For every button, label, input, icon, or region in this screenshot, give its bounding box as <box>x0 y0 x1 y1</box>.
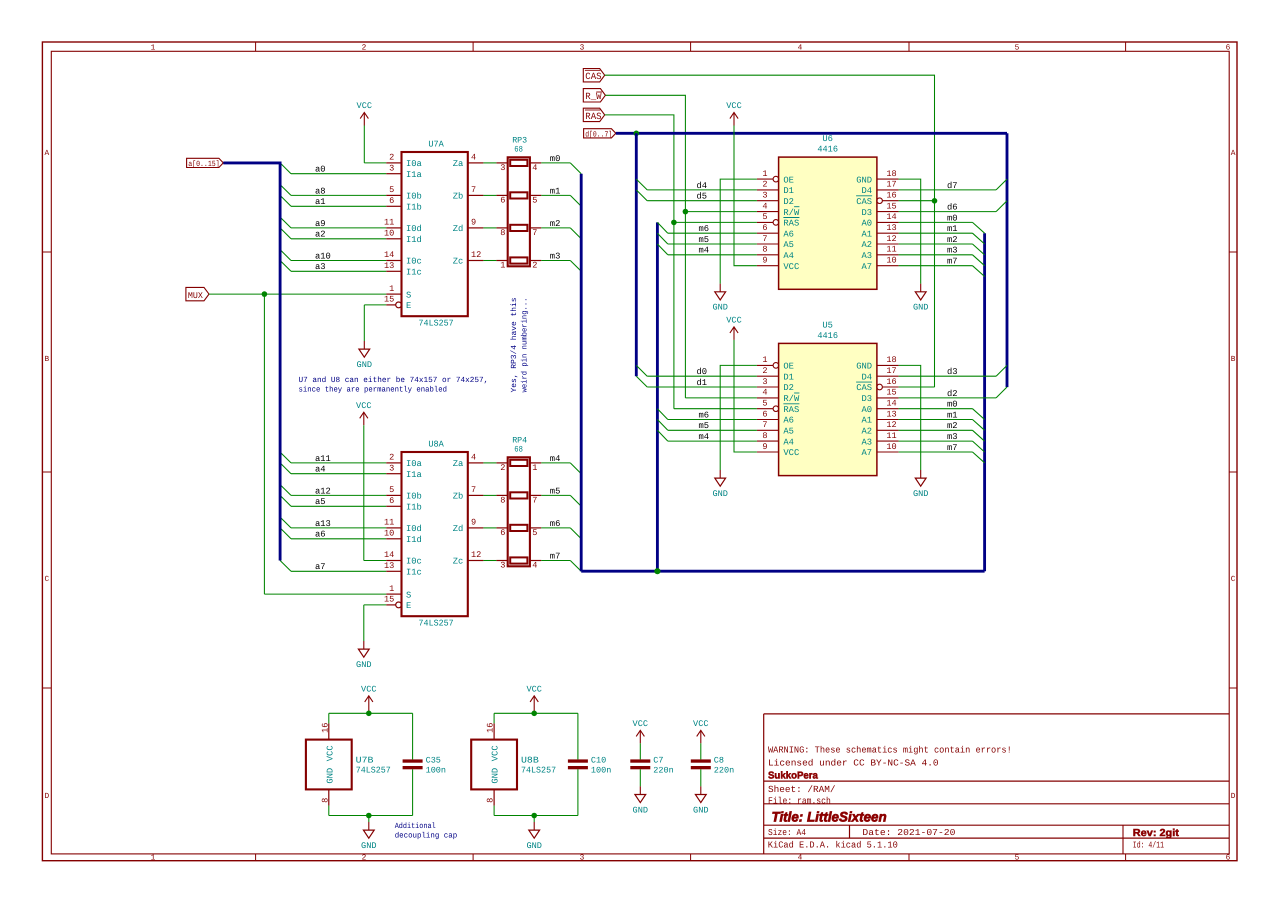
wire mux output to RP3 <box>483 194 496 196</box>
capacitor C8 220n <box>691 755 734 775</box>
bus d left vertical <box>635 133 638 376</box>
svg-text:13: 13 <box>886 223 896 233</box>
bus entry + wire a5 <box>280 495 386 507</box>
U6 pin 12 A2 <box>862 234 899 250</box>
junction MUX net <box>262 291 268 297</box>
svg-text:A1: A1 <box>862 229 873 239</box>
RP4 pin 7 (right) <box>530 495 541 505</box>
svg-text:15: 15 <box>886 201 896 211</box>
U6 pin 17 D4 <box>862 180 899 196</box>
U8A pin 1 S <box>386 584 411 601</box>
power VCC for RAM pin 9 <box>726 101 757 266</box>
svg-text:16: 16 <box>486 723 496 733</box>
RP3 pin 3 (left) <box>496 163 507 173</box>
wire MUX to U8A pin S <box>264 294 386 594</box>
capacitor C10 100n <box>568 755 611 775</box>
bus entry + wire a8 <box>280 185 386 197</box>
svg-text:A7: A7 <box>862 262 873 272</box>
svg-text:A0: A0 <box>862 219 873 229</box>
svg-text:4: 4 <box>471 453 476 463</box>
svg-text:VCC: VCC <box>633 719 648 729</box>
title block company SukkoPera <box>768 771 818 782</box>
ground for U7B rail <box>361 816 376 852</box>
title block file name <box>768 795 831 806</box>
svg-text:4416: 4416 <box>817 331 838 341</box>
svg-text:I1c: I1c <box>406 268 422 278</box>
svg-text:m6: m6 <box>550 519 561 529</box>
svg-text:m5: m5 <box>699 421 710 431</box>
wire + bus entry m2 <box>541 219 581 239</box>
svg-text:15: 15 <box>384 595 394 605</box>
note about 74x157/74x257 <box>299 376 489 395</box>
resistor RP3 element 1 <box>510 160 527 166</box>
bus entry + wire m6 <box>657 409 757 421</box>
svg-text:4: 4 <box>532 163 537 173</box>
wire + bus entry m7 <box>541 551 581 571</box>
wire + bus entry m0 (right) <box>899 213 985 233</box>
U5 pin 16 CAS <box>856 377 899 393</box>
svg-text:Licensed under CC BY-NC-SA 4.0: Licensed under CC BY-NC-SA 4.0 <box>768 758 939 769</box>
power VCC for RAM pin 9 <box>726 316 757 453</box>
wire + bus entry m1 (right) <box>899 224 985 244</box>
svg-text:VCC: VCC <box>357 101 372 111</box>
svg-text:MUX: MUX <box>188 291 204 301</box>
svg-text:A: A <box>44 149 49 158</box>
power VCC for U8A <box>356 401 386 561</box>
bus entry + wire a1 <box>280 195 386 207</box>
bus entry + wire m4 <box>657 244 757 256</box>
svg-text:GND: GND <box>913 303 928 313</box>
svg-text:d[0..7]: d[0..7] <box>585 131 612 140</box>
svg-text:1: 1 <box>151 854 156 863</box>
svg-text:A6: A6 <box>783 229 794 239</box>
U6 pin 18 GND <box>856 169 898 185</box>
wire + bus entry m1 <box>541 186 581 206</box>
svg-text:6: 6 <box>500 196 505 206</box>
svg-text:a0: a0 <box>315 165 326 175</box>
wire + bus entry m7 (right) <box>899 443 985 463</box>
svg-text:U7B: U7B <box>356 755 374 765</box>
wire R_W to pin 4 <box>685 211 757 213</box>
svg-text:m5: m5 <box>550 486 561 496</box>
svg-text:d3: d3 <box>947 367 958 377</box>
U5 pin 11 A3 <box>862 431 899 447</box>
ground for C7 <box>633 769 648 815</box>
U5 pin 14 A0 <box>862 399 899 415</box>
U6 pin 15 D3 <box>862 201 899 217</box>
ground for U7A pin 15 <box>357 305 387 370</box>
DRAM U6 4416 body <box>779 134 877 289</box>
svg-text:D1: D1 <box>783 372 794 382</box>
U6 pin 11 A3 <box>862 245 899 261</box>
svg-text:3: 3 <box>580 43 585 52</box>
svg-text:C7: C7 <box>653 755 663 765</box>
U7A pin 14 I0c <box>384 250 422 267</box>
wire R_W to pin 4 <box>685 397 757 399</box>
svg-text:5: 5 <box>1015 854 1020 863</box>
svg-text:1: 1 <box>389 284 394 294</box>
U7A pin 9 Zd <box>453 218 484 235</box>
svg-text:220n: 220n <box>714 765 734 775</box>
svg-text:18: 18 <box>886 169 896 179</box>
svg-text:m0: m0 <box>947 400 958 410</box>
svg-text:I0c: I0c <box>406 257 422 267</box>
svg-text:9: 9 <box>471 518 476 528</box>
bus entry + wire m5 <box>657 420 757 432</box>
svg-text:VCC: VCC <box>361 684 376 694</box>
ground for U8B rail <box>526 816 541 852</box>
U8A pin 11 I0d <box>384 518 422 535</box>
svg-text:8: 8 <box>486 798 496 803</box>
svg-text:A3: A3 <box>862 251 873 261</box>
svg-text:m2: m2 <box>947 235 958 245</box>
title block comment warning <box>768 744 1012 755</box>
svg-text:D1: D1 <box>783 186 794 196</box>
svg-text:m0: m0 <box>947 213 958 223</box>
svg-text:74LS257: 74LS257 <box>356 765 391 775</box>
svg-text:m7: m7 <box>947 443 958 453</box>
svg-text:14: 14 <box>886 399 896 409</box>
bus m (middle vertical) <box>656 222 659 571</box>
wire mux output to RP3 <box>483 162 496 164</box>
svg-text:GND: GND <box>856 362 872 372</box>
U7A pin 4 Za <box>453 153 484 170</box>
svg-text:U5: U5 <box>822 321 833 331</box>
U5 pin 9 VCC <box>757 442 799 458</box>
svg-text:4: 4 <box>471 153 476 163</box>
U5 pin 12 A2 <box>862 420 899 436</box>
U8A pin 10 I1d <box>384 529 422 546</box>
svg-text:16: 16 <box>886 191 896 201</box>
svg-text:7: 7 <box>762 234 767 244</box>
svg-text:VCC: VCC <box>491 745 501 761</box>
power VCC for U7A <box>357 101 387 163</box>
U6 pin 9 VCC <box>757 256 799 272</box>
svg-text:2: 2 <box>389 453 394 463</box>
power VCC for C7 <box>633 719 648 760</box>
global label CAS <box>583 69 604 83</box>
wire GND rail U8B <box>494 769 578 815</box>
RP4 pin 2 (left) <box>496 463 507 473</box>
svg-text:I1a: I1a <box>406 470 422 480</box>
svg-text:d2: d2 <box>947 389 958 399</box>
svg-text:m6: m6 <box>699 224 710 234</box>
svg-text:A3: A3 <box>862 437 873 447</box>
U6 pin 4 R/W <box>757 201 800 217</box>
svg-text:12: 12 <box>471 550 481 560</box>
wire VCC rail U8B <box>494 713 578 759</box>
junction m bus <box>654 568 660 574</box>
U7A pin 15 E (inverted) <box>384 295 411 312</box>
svg-text:8: 8 <box>500 228 505 238</box>
svg-text:a5: a5 <box>315 497 326 507</box>
bus entry + wire a13 <box>280 517 386 529</box>
svg-text:m1: m1 <box>947 410 958 420</box>
svg-text:E: E <box>406 601 411 611</box>
svg-text:GND: GND <box>712 303 727 313</box>
svg-text:VCC: VCC <box>693 719 708 729</box>
junction RAS at U6 <box>671 220 677 226</box>
svg-text:SukkoPera: SukkoPera <box>768 771 818 782</box>
svg-text:GND: GND <box>856 175 872 185</box>
wire MUX to U7A pin S <box>209 293 386 295</box>
svg-text:5: 5 <box>762 212 767 222</box>
svg-text:GND: GND <box>491 768 501 784</box>
svg-text:U8A: U8A <box>428 440 444 450</box>
U5 pin 5 RAS <box>757 399 800 415</box>
junction CAS at U6 <box>932 198 938 204</box>
svg-text:Rev: 2git: Rev: 2git <box>1133 828 1180 839</box>
wire + bus entry m3 (right) <box>899 432 985 452</box>
svg-text:A7: A7 <box>862 448 873 458</box>
U5 pin 13 A1 <box>862 409 899 425</box>
svg-text:220n: 220n <box>653 765 673 775</box>
resistor RP3 element 2 <box>510 192 527 198</box>
svg-text:B: B <box>1231 355 1236 364</box>
RP3 pin 6 (left) <box>496 195 507 205</box>
svg-text:VCC: VCC <box>726 316 741 326</box>
bus entry + wire a4 <box>280 463 386 475</box>
svg-text:100n: 100n <box>426 765 446 775</box>
svg-text:I0d: I0d <box>406 224 422 234</box>
svg-text:9: 9 <box>762 442 767 452</box>
bus entry + wire a3 <box>280 261 386 273</box>
svg-text:m3: m3 <box>550 251 561 261</box>
svg-text:D3: D3 <box>862 394 873 404</box>
title block comment license <box>768 758 939 769</box>
svg-text:1: 1 <box>762 355 767 365</box>
svg-text:since they are permanently ena: since they are permanently enabled <box>299 386 448 395</box>
svg-text:74LS257: 74LS257 <box>521 765 556 775</box>
svg-text:weird pin numbering...: weird pin numbering... <box>521 298 530 393</box>
svg-text:OE: OE <box>783 362 794 372</box>
U7B pin 16 VCC <box>320 723 335 762</box>
U5 pin 7 A5 <box>757 420 794 436</box>
svg-text:5: 5 <box>389 185 394 195</box>
svg-text:RAS: RAS <box>783 405 799 415</box>
svg-text:S: S <box>406 590 411 600</box>
svg-text:C10: C10 <box>591 755 606 765</box>
wire CAS to pin 16 <box>899 386 935 388</box>
svg-text:I0c: I0c <box>406 557 422 567</box>
svg-text:a4: a4 <box>315 465 326 475</box>
svg-text:U7A: U7A <box>428 140 444 150</box>
svg-text:CAS: CAS <box>856 383 872 393</box>
svg-text:6: 6 <box>1226 43 1231 52</box>
U6 pin 2 D1 <box>757 180 794 196</box>
bus entry + wire a10 <box>280 250 386 262</box>
title block kicad version <box>768 839 898 850</box>
svg-text:a7: a7 <box>315 562 326 572</box>
wire CAS to pin 16 <box>899 200 935 202</box>
wire + bus entry d6 from D3 <box>899 201 1007 213</box>
svg-text:4: 4 <box>762 201 767 211</box>
svg-text:CAS: CAS <box>585 71 601 82</box>
svg-text:13: 13 <box>384 261 394 271</box>
svg-text:3: 3 <box>580 854 585 863</box>
svg-text:Zc: Zc <box>453 557 464 567</box>
U7A pin 11 I0d <box>384 218 422 235</box>
U6 pin 14 A0 <box>862 212 899 228</box>
svg-text:14: 14 <box>384 250 394 260</box>
svg-text:m1: m1 <box>550 186 561 196</box>
svg-text:C8: C8 <box>714 755 724 765</box>
svg-text:17: 17 <box>886 180 896 190</box>
bus entry + wire m6 <box>657 222 757 234</box>
svg-text:GND: GND <box>913 489 928 499</box>
svg-text:A2: A2 <box>862 240 873 250</box>
note additional decoupling cap <box>395 822 458 840</box>
svg-text:8: 8 <box>320 798 330 803</box>
junction U8B GND rail <box>531 813 537 819</box>
title block sheet id <box>1133 840 1164 850</box>
wire GND pin 18 to ground <box>899 179 929 313</box>
U8A pin 2 I0a <box>386 453 422 470</box>
svg-text:6: 6 <box>389 196 394 206</box>
U8A pin 5 I0b <box>386 485 422 502</box>
title block revision <box>1133 828 1180 839</box>
svg-text:m3: m3 <box>947 246 958 256</box>
U5 pin 4 R/W <box>757 388 800 404</box>
wire + bus entry m2 (right) <box>899 235 985 255</box>
junction d bus <box>634 131 640 137</box>
svg-text:7: 7 <box>532 228 537 238</box>
svg-text:16: 16 <box>886 377 896 387</box>
svg-text:6: 6 <box>389 496 394 506</box>
svg-text:VCC: VCC <box>783 262 799 272</box>
svg-text:10: 10 <box>384 229 394 239</box>
svg-text:Date: 2021-07-20: Date: 2021-07-20 <box>862 828 955 838</box>
U8A pin 7 Zb <box>453 485 484 502</box>
svg-text:4: 4 <box>532 561 537 571</box>
svg-text:I1b: I1b <box>406 503 422 513</box>
U5 pin 3 D2 <box>757 377 794 393</box>
svg-text:m0: m0 <box>550 154 561 164</box>
U7A pin 1 S <box>386 284 411 301</box>
svg-text:m7: m7 <box>550 551 561 561</box>
svg-text:File: ram.sch: File: ram.sch <box>768 795 831 806</box>
wire mux output to RP4 <box>483 462 496 464</box>
svg-text:A5: A5 <box>783 240 794 250</box>
svg-text:68: 68 <box>514 444 523 454</box>
svg-text:a13: a13 <box>315 519 331 529</box>
svg-text:D2: D2 <box>783 197 794 207</box>
power VCC for C8 <box>693 719 708 760</box>
hierarchical label d[0..7] <box>584 129 616 140</box>
svg-text:2: 2 <box>362 43 367 52</box>
U6 pin 6 A6 <box>757 223 794 239</box>
RP3 pin 1 (left) <box>496 261 507 271</box>
svg-text:6: 6 <box>762 409 767 419</box>
svg-text:A: A <box>1231 149 1236 158</box>
svg-text:a[0..15]: a[0..15] <box>188 160 220 169</box>
svg-text:m4: m4 <box>699 432 710 442</box>
svg-text:E: E <box>406 301 411 311</box>
resistor pack RP3 68 body <box>508 135 530 266</box>
bus entry + wire m5 <box>657 233 757 245</box>
svg-text:VCC: VCC <box>783 448 799 458</box>
capacitor C7 220n <box>630 755 673 775</box>
U8A pin 9 Zd <box>453 518 484 535</box>
svg-text:14: 14 <box>384 550 394 560</box>
svg-text:1: 1 <box>500 261 505 271</box>
svg-text:8: 8 <box>762 245 767 255</box>
svg-text:m3: m3 <box>947 432 958 442</box>
bus entry + wire d0 to D1 <box>636 365 757 377</box>
wire VCC rail U7B <box>329 713 413 759</box>
svg-text:a3: a3 <box>315 262 326 272</box>
svg-text:14: 14 <box>886 212 896 222</box>
wire + bus entry m1 (right) <box>899 410 985 430</box>
wire + bus entry d2 from D3 <box>899 387 1007 399</box>
svg-text:6: 6 <box>762 223 767 233</box>
U8B pin 8 GND <box>486 768 501 806</box>
bus entry + wire d5 to D2 <box>636 190 757 202</box>
wire + bus entry m7 (right) <box>899 257 985 277</box>
svg-text:5: 5 <box>532 196 537 206</box>
svg-text:D4: D4 <box>862 186 873 196</box>
svg-text:Za: Za <box>453 159 464 169</box>
svg-text:2: 2 <box>532 261 537 271</box>
svg-text:R_W: R_W <box>585 91 601 102</box>
svg-text:3: 3 <box>389 163 394 173</box>
svg-text:4: 4 <box>798 854 803 863</box>
wire mux output to RP3 <box>483 227 496 229</box>
svg-text:D: D <box>1231 792 1236 801</box>
svg-text:d1: d1 <box>697 378 708 388</box>
wire GND rail U7B <box>329 769 413 815</box>
note about RP3/4 pin numbering (vertical) <box>510 297 530 392</box>
svg-text:12: 12 <box>886 234 896 244</box>
U7A pin 13 I1c <box>384 261 422 278</box>
junction U7B VCC rail <box>366 711 372 717</box>
bus entry + wire a12 <box>280 485 386 497</box>
U7A pin 2 I0a <box>386 153 422 170</box>
svg-text:2: 2 <box>762 366 767 376</box>
svg-text:a2: a2 <box>315 230 326 240</box>
svg-text:A6: A6 <box>783 416 794 426</box>
junction R_W at U6 <box>683 209 689 215</box>
svg-text:Zb: Zb <box>453 492 464 502</box>
resistor RP4 element 1 <box>510 460 527 466</box>
bus entry + wire a0 <box>280 163 386 175</box>
svg-text:Title: LittleSixteen: Title: LittleSixteen <box>772 810 887 825</box>
junction U7B GND rail <box>366 813 372 819</box>
svg-text:17: 17 <box>886 366 896 376</box>
svg-text:a6: a6 <box>315 530 326 540</box>
svg-text:100n: 100n <box>591 765 611 775</box>
RP4 pin 4 (right) <box>530 561 541 571</box>
ground for C8 <box>693 769 708 815</box>
svg-text:Additional: Additional <box>395 822 436 831</box>
svg-text:7: 7 <box>471 485 476 495</box>
svg-text:4: 4 <box>798 43 803 52</box>
svg-text:GND: GND <box>325 768 335 784</box>
global label RAS <box>583 108 604 122</box>
svg-text:Za: Za <box>453 459 464 469</box>
svg-text:5: 5 <box>389 485 394 495</box>
svg-text:decoupling cap: decoupling cap <box>395 831 458 840</box>
svg-text:7: 7 <box>762 420 767 430</box>
bus entry + wire a2 <box>280 228 386 240</box>
svg-text:11: 11 <box>886 431 896 441</box>
U8A pin 13 I1c <box>384 561 422 578</box>
U7B pin 8 GND <box>320 768 335 806</box>
svg-text:U6: U6 <box>822 134 833 144</box>
svg-text:d4: d4 <box>697 181 708 191</box>
wire RAS <box>605 115 674 409</box>
U8A pin 4 Za <box>453 453 484 470</box>
